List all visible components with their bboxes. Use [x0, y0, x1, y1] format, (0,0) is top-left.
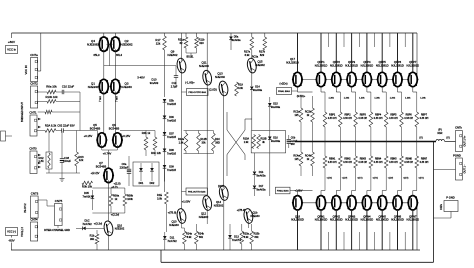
svg-text:6.9k: 6.9k: [245, 53, 251, 57]
svg-text:NJL1302D: NJL1302D: [315, 218, 328, 222]
svg-text:65L4: 65L4: [116, 53, 122, 57]
svg-text:RbR: RbR: [438, 132, 443, 135]
svg-text:FINAL BIAS: FINAL BIAS: [277, 189, 289, 192]
svg-text:RBN4: RBN4: [375, 159, 382, 161]
svg-text:39D: 39D: [215, 140, 220, 144]
svg-text:R6a 10k: R6a 10k: [46, 85, 57, 89]
svg-text:7 mA: 7 mA: [99, 96, 102, 102]
svg-text:CN72: CN72: [30, 82, 38, 86]
svg-text:NJL1302D: NJL1302D: [291, 218, 304, 222]
svg-text:+0.7v: +0.7v: [111, 185, 118, 189]
svg-text:(V): (V): [419, 136, 422, 139]
svg-text:7mA1k5: 7mA1k5: [167, 152, 177, 155]
svg-text:7mA1k: 7mA1k: [83, 194, 92, 198]
svg-text:IN-CH 2: IN-CH 2: [23, 203, 27, 213]
svg-text:7mA7k2: 7mA7k2: [167, 239, 177, 243]
svg-text:100k: 100k: [127, 197, 133, 201]
svg-text:NJE302: NJE302: [255, 63, 265, 67]
svg-text:829: 829: [260, 53, 265, 57]
svg-text:7mA1k5: 7mA1k5: [167, 136, 177, 139]
svg-text:30k: 30k: [201, 140, 206, 144]
svg-text:7 mA: 7 mA: [116, 96, 119, 102]
svg-text:0.33 OH: 0.33 OH: [374, 118, 383, 120]
svg-text:<(1V): <(1V): [418, 177, 424, 180]
svg-text:0.33 OH: 0.33 OH: [420, 118, 429, 120]
svg-text:RBP7: RBP7: [421, 115, 428, 117]
svg-text:(2.6D): (2.6D): [209, 88, 217, 92]
svg-text:PRE-OUT/TO BAS: PRE-OUT/TO BAS: [188, 190, 206, 193]
svg-text:1k5: 1k5: [295, 158, 300, 161]
svg-text:R10b 10k: R10b 10k: [46, 95, 59, 99]
svg-text:NJL1302D: NJL1302D: [391, 218, 404, 222]
svg-text:NJL3281D: NJL3281D: [361, 64, 374, 68]
svg-text:OUT 1 V+: OUT 1 V+: [464, 135, 467, 146]
svg-text:RBP5: RBP5: [390, 115, 397, 117]
svg-text:BC546B: BC546B: [109, 126, 120, 130]
svg-text:1.20k: 1.20k: [420, 98, 426, 100]
svg-text:9mA03a: 9mA03a: [256, 188, 266, 191]
svg-text:RBN2: RBN2: [344, 159, 351, 161]
svg-text:0.33 OH: 0.33 OH: [389, 118, 398, 120]
svg-text:1.20k: 1.20k: [329, 98, 335, 100]
svg-text:NJL1302D: NJL1302D: [406, 218, 419, 222]
svg-text:R0b 10k: R0b 10k: [82, 185, 93, 189]
svg-text:7mA1k5: 7mA1k5: [167, 103, 177, 106]
svg-text:(C04): (C04): [218, 185, 224, 188]
svg-text:+80V: +80V: [8, 40, 16, 44]
svg-text:RBP2: RBP2: [344, 115, 351, 117]
svg-text:3-45V: 3-45V: [137, 76, 145, 80]
svg-text:1.9k: 1.9k: [244, 141, 249, 144]
svg-text:1.20k: 1.20k: [344, 98, 350, 100]
svg-text:B5.B1: B5.B1: [187, 55, 195, 59]
svg-text:RBP1: RBP1: [329, 115, 336, 117]
svg-text:8.9k: 8.9k: [244, 236, 249, 239]
svg-text:NJE302: NJE302: [214, 203, 224, 207]
svg-text:(-1.00)+: (-1.00)+: [185, 81, 195, 85]
svg-text:P GND: P GND: [446, 196, 454, 200]
svg-text:2k: 2k: [307, 158, 310, 161]
svg-text:NJL1302D: NJL1302D: [361, 218, 374, 222]
svg-text:+(7B.9): +(7B.9): [168, 211, 177, 215]
svg-text:PRE-OUT/TO BAS: PRE-OUT/TO BAS: [189, 91, 207, 94]
svg-text:2.7pF: 2.7pF: [171, 84, 178, 88]
svg-text:0.33 OH: 0.33 OH: [358, 118, 367, 120]
svg-text:NJL3281D: NJL3281D: [376, 64, 389, 68]
svg-text:9mA03a: 9mA03a: [231, 39, 241, 42]
svg-text:D01: D01: [139, 181, 144, 185]
svg-text:80k: 80k: [255, 236, 260, 239]
svg-text:39k: 39k: [90, 237, 95, 241]
svg-text:0.33 OH: 0.33 OH: [404, 162, 413, 164]
svg-text:0.33 OH: 0.33 OH: [358, 162, 367, 164]
svg-text:+1.09V: +1.09V: [182, 200, 191, 204]
svg-text:NJL3281D: NJL3281D: [391, 64, 404, 68]
svg-text:OUT 1 -: OUT 1 -: [464, 165, 467, 174]
svg-text:NJL3281D: NJL3281D: [330, 64, 343, 68]
svg-text:D02: D02: [150, 181, 155, 185]
svg-text:<(1V): <(1V): [357, 177, 363, 180]
svg-text:NJE302: NJE302: [168, 53, 178, 57]
svg-text:12k: 12k: [79, 158, 84, 162]
svg-text:3.9k: 3.9k: [157, 196, 163, 200]
svg-text:NJE3082: NJE3082: [87, 43, 99, 47]
svg-text:-80V: -80V: [8, 239, 15, 243]
svg-text:0.33 OH: 0.33 OH: [328, 162, 337, 164]
svg-text:NJE340: NJE340: [169, 223, 179, 227]
svg-text:1.20k: 1.20k: [359, 98, 365, 100]
svg-text:RBN3: RBN3: [360, 159, 367, 161]
svg-text:FINAL BIAS: FINAL BIAS: [278, 90, 290, 93]
svg-text:NJE340: NJE340: [250, 214, 260, 218]
svg-text:NJE340: NJE340: [121, 85, 132, 89]
svg-text:<(1V): <(1V): [342, 177, 348, 180]
svg-text:+0.15V: +0.15V: [122, 134, 131, 138]
svg-text:CN7e: CN7e: [441, 203, 443, 210]
svg-text:2200pF: 2200pF: [120, 165, 129, 169]
svg-text:8.9k: 8.9k: [187, 236, 192, 239]
svg-text:NJE3082: NJE3082: [120, 43, 132, 47]
svg-text:R2A 6.2k: R2A 6.2k: [45, 124, 57, 128]
svg-text:RBP4: RBP4: [375, 115, 382, 117]
svg-text:0.33 OH: 0.33 OH: [328, 118, 337, 120]
svg-text:1.20k: 1.20k: [374, 98, 380, 100]
svg-text:BC546B: BC546B: [90, 126, 101, 130]
svg-text:9mA03a: 9mA03a: [253, 89, 263, 92]
svg-text:NJL1302D: NJL1302D: [376, 218, 389, 222]
svg-text:<(1V): <(1V): [327, 177, 333, 180]
svg-text:CN7b: CN7b: [455, 126, 462, 130]
svg-text:VCC IN: VCC IN: [24, 65, 28, 74]
svg-text:<(1V): <(1V): [403, 177, 409, 180]
svg-text:CN7a: CN7a: [30, 53, 38, 57]
svg-text:CN75: CN75: [55, 199, 63, 203]
svg-text:<(1V): <(1V): [388, 177, 394, 180]
svg-text:0.9k: 0.9k: [238, 86, 244, 90]
svg-text:NJL3281D: NJL3281D: [315, 64, 328, 68]
svg-text:9mA03: 9mA03: [150, 81, 159, 85]
svg-text:RBN1: RBN1: [329, 159, 336, 161]
svg-text:NJL1302D: NJL1302D: [330, 218, 343, 222]
svg-text:2k: 2k: [307, 114, 310, 117]
svg-text:100uF: 100uF: [63, 159, 71, 163]
svg-text:R0c 12k: R0c 12k: [151, 151, 161, 155]
svg-text:BRIDGED INPUT: BRIDGED INPUT: [20, 102, 24, 122]
svg-text:+(3.3v): +(3.3v): [94, 222, 103, 226]
svg-text:CN71: CN71: [29, 111, 37, 115]
svg-text:RBP3: RBP3: [360, 115, 367, 117]
svg-text:VCC(-) 2: VCC(-) 2: [21, 227, 24, 237]
svg-text:NJL3281D: NJL3281D: [286, 60, 299, 64]
svg-text:9mA03a: 9mA03a: [271, 140, 281, 143]
svg-text:NJE340: NJE340: [199, 64, 209, 68]
svg-text:0.33 OH: 0.33 OH: [343, 118, 352, 120]
svg-text:7mA1k5: 7mA1k5: [167, 169, 177, 172]
svg-text:7mA1k5: 7mA1k5: [167, 119, 177, 122]
svg-text:NJE340: NJE340: [215, 75, 225, 79]
svg-text:+(2.2)V: +(2.2)V: [91, 171, 100, 175]
svg-text:RBN6: RBN6: [406, 159, 413, 161]
svg-text:+0.15V: +0.15V: [84, 134, 93, 138]
svg-text:(V): (V): [446, 136, 449, 139]
svg-text:1.20k: 1.20k: [390, 98, 396, 100]
svg-text:3k: 3k: [262, 141, 265, 144]
svg-text:+0.74V: +0.74V: [103, 152, 112, 156]
svg-text:C10 22uF: C10 22uF: [62, 85, 75, 89]
svg-text:NJE340: NJE340: [88, 85, 99, 89]
svg-text:NJE302: NJE302: [115, 227, 125, 231]
svg-text:80k: 80k: [199, 236, 204, 239]
svg-text:+(7B.9): +(7B.9): [237, 208, 246, 212]
svg-text:63V: 63V: [291, 144, 296, 146]
svg-text:RBN7: RBN7: [421, 159, 428, 161]
svg-text:RC3a: RC3a: [252, 56, 259, 59]
svg-text:7mA7k2: 7mA7k2: [82, 222, 92, 226]
svg-text:1k5: 1k5: [295, 114, 300, 117]
svg-text:CN73: CN73: [31, 192, 39, 196]
svg-text:CN70: CN70: [29, 147, 37, 151]
svg-text:1.3k: 1.3k: [38, 159, 44, 163]
svg-text:0.33 OH: 0.33 OH: [374, 162, 383, 164]
svg-text:RBP6: RBP6: [406, 115, 413, 117]
svg-text:(+2Dv): (+2Dv): [279, 82, 287, 86]
svg-text:9mA03a: 9mA03a: [256, 174, 266, 177]
svg-text:1.20k: 1.20k: [405, 98, 411, 100]
svg-text:NJL3281D: NJL3281D: [345, 64, 358, 68]
svg-text:VCC (-): VCC (-): [7, 229, 16, 233]
svg-text:VCC in: VCC in: [7, 47, 16, 51]
svg-text:65L3: 65L3: [94, 53, 100, 57]
svg-text:BC546B: BC546B: [96, 164, 107, 168]
svg-text:R0b 1k: R0b 1k: [142, 131, 151, 135]
svg-text:12k: 12k: [156, 41, 161, 45]
svg-text:0.33 OH: 0.33 OH: [389, 162, 398, 164]
svg-text:+(2.9): +(2.9): [113, 182, 120, 186]
svg-text:CN74: CN74: [30, 218, 38, 222]
svg-text:NJL1302D: NJL1302D: [345, 218, 358, 222]
svg-text:0.33 OH: 0.33 OH: [404, 118, 413, 120]
svg-text:1.9k: 1.9k: [179, 140, 185, 144]
svg-text:9mA03a: 9mA03a: [271, 106, 281, 109]
svg-text:<(1V): <(1V): [372, 177, 378, 180]
svg-text:PGND: PGND: [453, 154, 461, 158]
svg-text:0.33 OH: 0.33 OH: [420, 162, 429, 164]
svg-text:620: 620: [199, 41, 204, 45]
svg-text:INTER-CHANNEL GND: INTER-CHANNEL GND: [44, 229, 70, 232]
svg-text:0.33 OH: 0.33 OH: [343, 162, 352, 164]
svg-text:C02 22uF 63V: C02 22uF 63V: [57, 124, 74, 128]
svg-text:RBN5: RBN5: [390, 159, 397, 161]
svg-text:NJL3281D: NJL3281D: [406, 64, 419, 68]
svg-text:C0b: C0b: [291, 137, 296, 140]
